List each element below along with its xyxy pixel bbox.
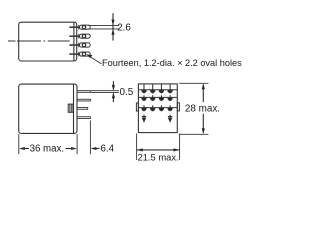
dimension 36 max line bbox=[25, 148, 30, 150]
side view flange line bbox=[73, 84, 75, 133]
top view flange line bbox=[73, 22, 75, 61]
arrowheads dimension 2.6 bbox=[111, 20, 114, 26]
top view pin 1 bbox=[69, 25, 90, 30]
side view latch bbox=[68, 104, 73, 112]
arrowheads dimension 21.5 max bbox=[137, 148, 143, 151]
svg-text:Fourteen, 1.2-dia. × 2.2 oval: Fourteen, 1.2-dia. × 2.2 oval holes bbox=[102, 58, 242, 68]
side view pin 3 bbox=[77, 108, 88, 110]
arrowheads dimension 28 max bbox=[202, 84, 205, 90]
row 2 pins bbox=[141, 95, 173, 101]
side view body bbox=[19, 84, 77, 133]
bottom view row line 3 bbox=[139, 107, 177, 109]
arrowheads dimension 0.5 bbox=[112, 85, 115, 91]
svg-text:6.4: 6.4 bbox=[101, 143, 115, 154]
dimension 0.5 extension lines bbox=[91, 90, 119, 92]
svg-text:21.5 max.: 21.5 max. bbox=[138, 151, 179, 162]
bottom view right tab bbox=[177, 103, 179, 111]
svg-text:2.6: 2.6 bbox=[117, 22, 131, 33]
leader arrowhead bbox=[86, 54, 92, 58]
dimension 21.5 max extension lines bbox=[136, 134, 138, 161]
top view centerline bbox=[8, 40, 70, 42]
dimension 0.5 line bbox=[112, 81, 114, 89]
row 4 coil pins bbox=[142, 115, 173, 123]
leader line for oval holes note bbox=[88, 55, 101, 64]
svg-text:36 max.: 36 max. bbox=[30, 144, 64, 155]
top view pin 4 bbox=[69, 52, 90, 57]
top view body bbox=[19, 22, 77, 61]
dimension 2.6 extension lines bbox=[88, 24, 119, 26]
dimension 2.6 line bbox=[112, 13, 114, 40]
dimension 6.4 extension line bbox=[89, 121, 91, 155]
row 3 pins bbox=[141, 105, 173, 111]
dimension 28 max line bbox=[202, 85, 204, 102]
top view pin 2 bbox=[69, 34, 90, 39]
dimension 6.4 line bbox=[96, 148, 100, 150]
side view pin 2 bbox=[77, 99, 90, 101]
top view pin 3 bbox=[69, 43, 90, 48]
dimension 21.5 max line bbox=[137, 149, 179, 151]
bottom view body bbox=[138, 84, 177, 133]
row 1 pins bbox=[141, 84, 173, 93]
arrowheads dimension 36 max bbox=[19, 147, 25, 150]
bottom view row line 1 bbox=[139, 89, 177, 91]
bottom view row line 2 bbox=[139, 96, 177, 98]
svg-text:28 max.: 28 max. bbox=[185, 103, 220, 114]
arrowhead dimension 6.4 bbox=[91, 147, 97, 150]
side view pin 4 bbox=[77, 117, 90, 119]
svg-text:0.5: 0.5 bbox=[120, 87, 134, 98]
dimension 36 max extension lines bbox=[18, 134, 20, 154]
side view pin 1 bbox=[77, 91, 90, 93]
dimension 28 max extension lines bbox=[179, 82, 208, 84]
bottom view pins: rows 1-3, 4 columns bbox=[141, 84, 173, 122]
bottom view left tab bbox=[136, 103, 138, 111]
